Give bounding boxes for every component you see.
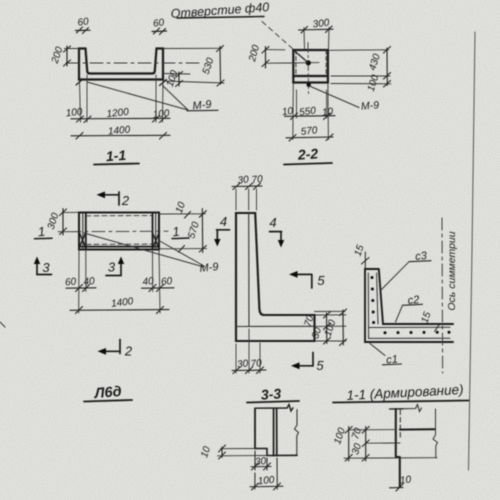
anchor dot bottom xyxy=(307,83,311,87)
label C3 leader xyxy=(380,262,409,291)
dim 530 line xyxy=(217,46,225,87)
left wall lines xyxy=(82,213,84,250)
section outline xyxy=(293,50,328,83)
M-9 leader lines xyxy=(87,82,188,110)
svg-text:70: 70 xyxy=(251,174,264,186)
symmetry axis line xyxy=(441,218,444,373)
plan outline xyxy=(79,213,159,250)
section mark 3 right xyxy=(106,261,121,276)
dim 100 xyxy=(250,458,283,490)
channel body outline xyxy=(79,49,163,80)
svg-text:10: 10 xyxy=(281,106,294,118)
L profile outline xyxy=(236,213,315,341)
top line with break xyxy=(403,405,422,412)
dim 10 bottom xyxy=(390,484,404,491)
dim 15 leg xyxy=(435,324,441,332)
svg-text:М-9: М-9 xyxy=(360,99,379,113)
dim 200 extension line xyxy=(65,48,80,50)
dim 60/40 left xyxy=(66,285,96,292)
svg-text:10: 10 xyxy=(399,474,412,486)
top dim extensions xyxy=(236,189,257,210)
svg-text:40: 40 xyxy=(142,276,155,288)
svg-text:4: 4 xyxy=(220,214,227,229)
hole dot xyxy=(306,60,311,65)
rebar cage wall lines xyxy=(368,273,378,339)
dim 1400 line xyxy=(70,307,169,314)
svg-text:30: 30 xyxy=(254,456,267,468)
bottom extensions xyxy=(293,83,329,140)
bottom step xyxy=(255,449,297,456)
svg-text:60: 60 xyxy=(161,276,174,288)
svg-text:40: 40 xyxy=(83,276,96,288)
dim 15 top-left xyxy=(362,252,370,268)
svg-text:30: 30 xyxy=(237,174,250,186)
plan centerline xyxy=(68,230,168,233)
dim 100 line xyxy=(345,427,352,462)
hidden edges (dashed) xyxy=(296,50,326,76)
dim 10/550/10 line xyxy=(285,113,336,120)
bottom extensions xyxy=(79,250,160,314)
svg-text:100: 100 xyxy=(152,108,170,121)
extensions xyxy=(344,430,437,459)
top dim line 30/70 xyxy=(232,183,262,190)
right extension lines xyxy=(315,311,347,341)
left extensions xyxy=(218,449,268,456)
diagonal to hole xyxy=(294,51,308,63)
dim 300 line xyxy=(299,26,334,33)
svg-text:100: 100 xyxy=(65,107,83,120)
dim 570 line xyxy=(286,134,333,141)
dim line 100/1200/100 xyxy=(71,116,170,123)
dim 300 extensions xyxy=(304,28,329,50)
horizontal centerline xyxy=(288,62,319,64)
title 2-2 underline xyxy=(284,163,332,165)
left edge xyxy=(254,409,256,449)
svg-text:1400: 1400 xyxy=(108,125,132,138)
M-9 underline xyxy=(187,109,218,112)
label C3 underline xyxy=(409,261,431,262)
corner outline xyxy=(365,269,453,342)
svg-text:1-1: 1-1 xyxy=(105,147,127,164)
dim line 1400 xyxy=(71,133,170,140)
svg-text:1: 1 xyxy=(172,224,181,240)
dim 200 line xyxy=(262,47,269,69)
svg-text:60: 60 xyxy=(77,16,90,29)
svg-text:5: 5 xyxy=(317,273,325,288)
dim 70/30 line xyxy=(324,312,331,345)
dim 10 tick xyxy=(185,212,191,219)
bottom extension lines xyxy=(80,75,164,122)
M-9 leaders xyxy=(84,233,204,267)
vertical bar with jog xyxy=(396,409,400,487)
dim 100 line xyxy=(340,309,347,346)
svg-text:570: 570 xyxy=(300,125,318,138)
dim 300 line xyxy=(60,209,67,236)
top edge with break xyxy=(255,405,293,412)
svg-text:5: 5 xyxy=(316,358,324,373)
label C1 underline xyxy=(383,363,402,366)
svg-text:2: 2 xyxy=(124,344,133,359)
svg-text:550: 550 xyxy=(299,105,317,118)
note underline xyxy=(177,17,264,19)
dim 60 left ticks xyxy=(76,27,91,34)
hidden dashed lines xyxy=(86,216,152,245)
dim 10 ticks xyxy=(219,445,226,459)
right extension lines xyxy=(159,214,207,249)
svg-text:60: 60 xyxy=(65,276,78,288)
dim 40/60 right xyxy=(142,285,175,292)
dim 300 extension xyxy=(58,212,79,231)
inner leg line xyxy=(236,325,315,327)
section mark 5 lower xyxy=(299,353,314,367)
horizontal bar xyxy=(400,428,435,430)
sheet frame line right xyxy=(469,32,476,470)
top tick xyxy=(390,408,404,410)
dim 60 right ticks xyxy=(152,28,167,35)
embed X mark right xyxy=(153,233,160,248)
svg-text:2-2: 2-2 xyxy=(296,145,319,162)
vertical centerline xyxy=(307,43,310,96)
M-9 leader xyxy=(310,86,360,108)
right vertical with break xyxy=(433,409,438,458)
svg-text:30: 30 xyxy=(236,358,249,370)
title L6d underline xyxy=(84,400,132,402)
rebar dots leg xyxy=(384,331,451,335)
svg-text:2: 2 xyxy=(121,193,130,208)
right edge with break xyxy=(295,410,299,456)
bottom dim extensions xyxy=(236,329,260,373)
svg-text:100: 100 xyxy=(257,475,275,488)
svg-text:300: 300 xyxy=(312,17,330,30)
title 3-3 underline xyxy=(247,401,299,403)
dim 100 line right xyxy=(176,72,183,87)
svg-text:Ось симметрии: Ось симметрии xyxy=(446,231,458,310)
note dashed leader xyxy=(262,22,294,50)
dim 430/100 line xyxy=(384,47,391,88)
section mark 3 left xyxy=(37,261,52,275)
embed X mark left xyxy=(79,232,86,248)
title underline xyxy=(333,401,469,403)
dim 570 line xyxy=(199,209,206,253)
svg-text:1: 1 xyxy=(37,224,46,240)
centerline (dash-dot) xyxy=(66,62,203,64)
right extensions xyxy=(330,50,392,84)
dim 200 extensions xyxy=(265,50,289,64)
svg-text:Л6д: Л6д xyxy=(93,384,122,402)
section mark 2 top xyxy=(104,192,119,205)
svg-text:М-9: М-9 xyxy=(199,261,219,275)
label C2 underline xyxy=(403,304,423,305)
section mark 2 bottom xyxy=(105,340,120,354)
slab top thick line xyxy=(89,73,154,75)
slab top thick line xyxy=(293,75,328,77)
label C1 leader xyxy=(370,344,385,356)
right extension lines xyxy=(163,48,224,83)
dashed bar xyxy=(399,410,401,438)
plan inner bottom line xyxy=(79,246,159,248)
svg-text:70: 70 xyxy=(250,358,263,370)
inner wall line xyxy=(248,213,250,327)
label C2 leader xyxy=(396,305,403,322)
rebar cage leg lines xyxy=(369,327,451,338)
svg-text:3-3: 3-3 xyxy=(260,385,282,402)
dim 200 line xyxy=(64,46,71,66)
svg-text:3: 3 xyxy=(108,260,116,275)
small edge mark xyxy=(0,322,5,327)
lower tick xyxy=(179,246,185,253)
svg-text:4: 4 xyxy=(269,215,276,230)
rebar double line xyxy=(274,409,277,456)
right wall lines xyxy=(155,213,157,250)
section mark 5 upper xyxy=(297,274,312,288)
corner slashes xyxy=(76,79,167,86)
title 1-1 underline xyxy=(94,164,139,165)
rebar dots wall xyxy=(371,276,376,324)
bottom dim line 30/70 xyxy=(232,367,266,374)
dim 30 xyxy=(251,451,271,470)
svg-text:10: 10 xyxy=(321,106,334,118)
dim 70/30 line xyxy=(362,427,369,462)
svg-text:3: 3 xyxy=(42,260,50,275)
